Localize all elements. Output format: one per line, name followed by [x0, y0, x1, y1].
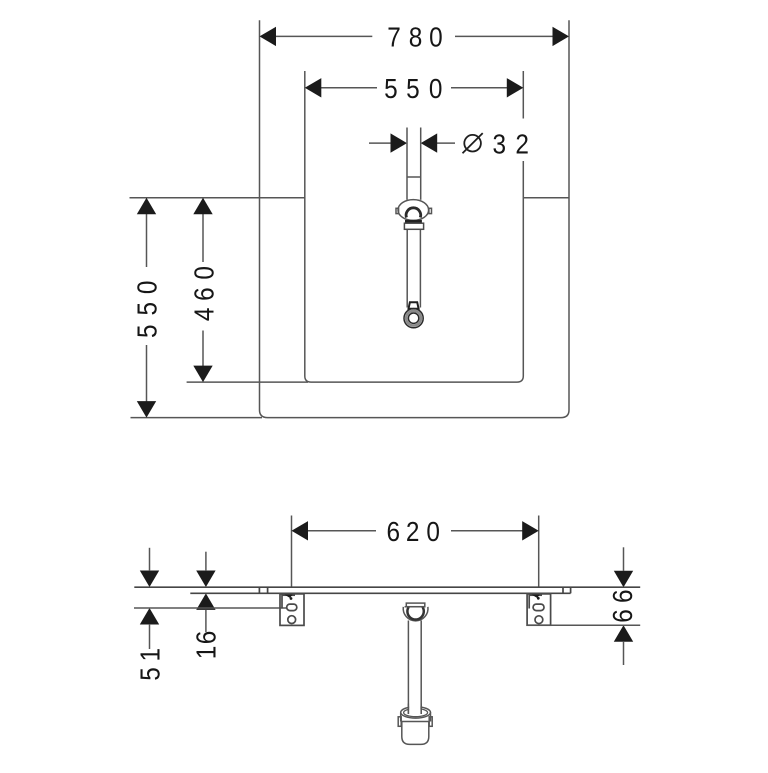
svg-text:2: 2	[406, 515, 420, 547]
svg-text:6: 6	[387, 515, 401, 547]
svg-text:2: 2	[515, 128, 529, 160]
svg-text:5: 5	[134, 667, 166, 681]
svg-text:5: 5	[406, 72, 420, 104]
svg-text:0: 0	[426, 515, 440, 547]
svg-text:5: 5	[131, 324, 163, 338]
svg-text:0: 0	[188, 266, 220, 280]
svg-text:8: 8	[409, 21, 423, 53]
svg-text:4: 4	[188, 308, 220, 322]
svg-text:6: 6	[607, 609, 639, 623]
svg-text:3: 3	[493, 128, 507, 160]
svg-text:5: 5	[131, 302, 163, 316]
svg-text:1: 1	[134, 648, 166, 662]
svg-text:0: 0	[131, 281, 163, 295]
svg-text:0: 0	[429, 21, 443, 53]
svg-text:1: 1	[190, 646, 222, 660]
svg-text:5: 5	[384, 72, 398, 104]
svg-text:6: 6	[188, 287, 220, 301]
svg-text:0: 0	[429, 72, 443, 104]
svg-text:6: 6	[190, 631, 222, 645]
svg-text:6: 6	[607, 589, 639, 603]
svg-text:7: 7	[387, 21, 401, 53]
